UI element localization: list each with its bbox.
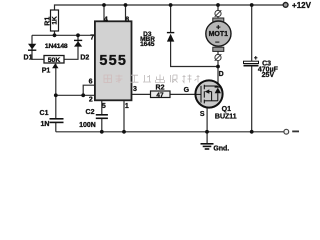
- svg-text:5: 5: [102, 103, 106, 110]
- svg-text:C2: C2: [86, 109, 95, 116]
- svg-text:+: +: [254, 56, 258, 62]
- svg-text:4: 4: [104, 17, 108, 24]
- svg-text:C1: C1: [40, 110, 49, 117]
- svg-text:1N4148: 1N4148: [45, 43, 68, 50]
- svg-text:D: D: [219, 71, 224, 78]
- svg-text:1645: 1645: [140, 41, 155, 48]
- svg-text:100N: 100N: [79, 122, 96, 129]
- svg-text:2: 2: [89, 96, 93, 103]
- svg-text:50K: 50K: [48, 57, 61, 64]
- svg-text:1K: 1K: [52, 16, 59, 25]
- svg-text:1N: 1N: [41, 121, 50, 128]
- svg-text:47: 47: [156, 92, 164, 99]
- svg-text:8: 8: [125, 17, 129, 24]
- svg-text:1: 1: [125, 103, 129, 110]
- svg-text:6: 6: [89, 78, 93, 85]
- svg-text:Gnd.: Gnd.: [213, 146, 229, 153]
- svg-text:P1: P1: [42, 68, 51, 75]
- svg-text:D1: D1: [24, 55, 33, 62]
- svg-text:S: S: [200, 111, 205, 118]
- svg-text:BUZ11: BUZ11: [215, 113, 237, 120]
- svg-text:R1: R1: [44, 17, 51, 26]
- svg-text:25V: 25V: [262, 72, 275, 79]
- svg-text:3: 3: [133, 86, 137, 93]
- svg-text:+12V: +12V: [292, 1, 312, 10]
- svg-text:R2: R2: [156, 84, 165, 91]
- svg-text:Q1: Q1: [222, 106, 231, 113]
- svg-text:+: +: [216, 22, 221, 31]
- svg-text:555: 555: [99, 53, 127, 69]
- svg-text:7: 7: [90, 35, 94, 42]
- svg-text:−: −: [215, 37, 220, 46]
- svg-text:D2: D2: [80, 54, 89, 61]
- svg-text:G: G: [184, 87, 190, 94]
